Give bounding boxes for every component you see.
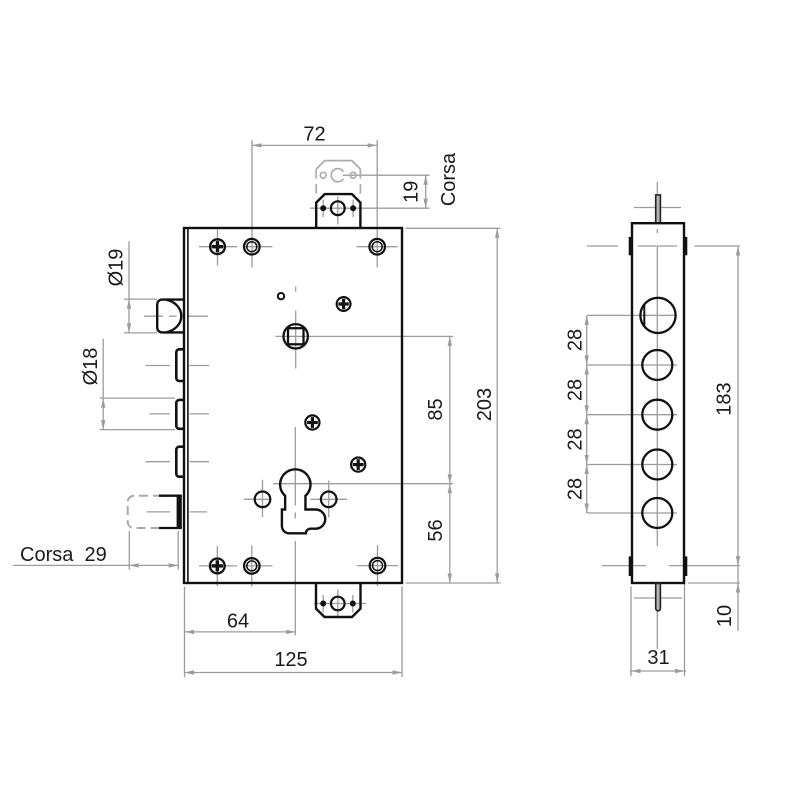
cylinder left fixing hole bbox=[255, 492, 271, 508]
bottom latch dot crosshairs bbox=[322, 595, 324, 613]
follower crosshair horizontal / dim85 ext bbox=[276, 335, 454, 337]
bottom ring crosshair vertical bbox=[251, 546, 253, 587]
dim 28 chain line bbox=[586, 315, 588, 513]
deadbolt nose curve bbox=[167, 300, 182, 332]
side hole 2 bbox=[642, 350, 672, 380]
svg-text:203: 203 bbox=[474, 388, 496, 421]
corsa29 ext left bbox=[128, 531, 130, 570]
deadbolt head (O19) bbox=[157, 300, 183, 333]
cylinder vertical centerline bbox=[294, 427, 296, 506]
dim 85 line bbox=[449, 336, 451, 483]
top latch center hole bbox=[331, 201, 345, 215]
bottom ring hole right bbox=[370, 558, 386, 574]
top right ring crosshair horizontal bbox=[357, 246, 398, 248]
bolt5 centerline bbox=[147, 511, 170, 513]
lock body outline bbox=[184, 228, 402, 583]
top latch pin bbox=[656, 195, 661, 223]
svg-text:31: 31 bbox=[647, 647, 669, 669]
dim 31 arrows bbox=[631, 669, 641, 673]
svg-text:64: 64 bbox=[227, 611, 249, 633]
dim 10 ext bbox=[688, 582, 740, 584]
dim 19 line bbox=[425, 175, 427, 208]
side hole 1 chord bbox=[643, 305, 645, 327]
O18 bolt centerline bbox=[150, 413, 171, 415]
dim O19 line bbox=[128, 241, 130, 333]
phillips screw mid left bbox=[305, 415, 319, 429]
bottom pin bbox=[656, 583, 661, 610]
svg-text:28: 28 bbox=[565, 379, 587, 401]
bracket bolt 3 (O18) bbox=[176, 400, 183, 429]
bottom latch center hole bbox=[331, 597, 345, 611]
bottom phillips screw bbox=[210, 559, 225, 574]
corsa29 ext right bbox=[177, 531, 179, 570]
phillips screw mid upper bbox=[337, 297, 351, 311]
ghost latch center arc bbox=[331, 169, 343, 182]
svg-text:19: 19 bbox=[400, 181, 422, 203]
svg-text:Ø18: Ø18 bbox=[80, 348, 102, 386]
top screw crosshair horizontal bbox=[199, 246, 237, 248]
follower crosshair vertical bbox=[295, 311, 297, 369]
svg-text:Corsa 29: Corsa 29 bbox=[20, 544, 107, 566]
bottom tabs line bbox=[602, 565, 646, 567]
dim 31 ext right bbox=[684, 558, 686, 676]
svg-text:Corsa: Corsa bbox=[438, 152, 460, 206]
svg-text:125: 125 bbox=[274, 649, 307, 671]
latch vertical centerline bbox=[337, 197, 339, 225]
bottom tab right bbox=[684, 556, 687, 576]
svg-text:Ø19: Ø19 bbox=[106, 249, 128, 287]
top pin centerline bbox=[656, 182, 658, 194]
top ring hole left bbox=[244, 239, 260, 255]
dim 203 ext top bbox=[406, 227, 501, 229]
bracket4 centerline bbox=[146, 461, 171, 463]
bottom pin level line bbox=[634, 597, 682, 599]
dim O19 ext top bbox=[124, 298, 157, 300]
dim O19 ext bottom bbox=[124, 332, 157, 334]
dim 72 left extension bbox=[251, 140, 253, 268]
dim 19 arrows bbox=[424, 175, 428, 185]
dim 125 ext right bbox=[401, 587, 403, 678]
dim 31 line bbox=[630, 670, 686, 672]
dim 10 arrows bbox=[736, 583, 740, 593]
side hole 3 bbox=[642, 400, 672, 430]
deadbolt centerline bbox=[144, 315, 163, 317]
dim O18 ext bottom bbox=[100, 429, 175, 431]
top tab right bbox=[684, 237, 687, 255]
latch dot crosshair left bbox=[322, 200, 324, 218]
corsa 29 arrows bbox=[129, 563, 139, 567]
dim 183 line bbox=[737, 246, 739, 566]
dim O18 ext top bbox=[100, 397, 175, 399]
side construction lines bbox=[587, 182, 740, 676]
dim 85 arrows bbox=[448, 336, 452, 346]
phillips screw mid right bbox=[351, 458, 365, 472]
dim 125 line bbox=[185, 672, 403, 674]
top latch right pin bbox=[350, 205, 356, 211]
cylinder left hole crosshair bbox=[244, 498, 271, 500]
dim 56 line bbox=[449, 484, 451, 583]
latch centerline horizontal bbox=[310, 207, 430, 209]
dim 183 arrows bbox=[736, 246, 740, 256]
side hole 5 bbox=[642, 498, 672, 528]
dim 64/125 ext left bbox=[184, 587, 186, 678]
faceplate inner line bbox=[187, 228, 189, 583]
bottom latch bracket bbox=[316, 583, 361, 617]
follower circle bbox=[284, 324, 308, 348]
corsa29 dim line bbox=[13, 564, 178, 566]
svg-text:85: 85 bbox=[425, 398, 447, 420]
top tab left bbox=[629, 237, 632, 255]
ghost latch right hole bbox=[350, 172, 356, 178]
dim 28 chain arrows bbox=[585, 315, 589, 325]
bracket bolt 2 bbox=[176, 349, 183, 381]
top tabs line bbox=[587, 245, 618, 247]
dim O19 arrows bbox=[127, 299, 131, 309]
extended latch level line bbox=[634, 207, 681, 209]
bottom latch right pin bbox=[350, 601, 356, 607]
bolt 5 stub top/bottom bbox=[159, 496, 182, 528]
top screw crosshair vertical bbox=[217, 228, 219, 266]
svg-text:183: 183 bbox=[714, 382, 736, 415]
cylinder crosshair horizontal / dim85-56 ext bbox=[273, 483, 453, 485]
ghost extended bolt 5 (dashed gray) bbox=[128, 496, 162, 528]
ghost latch left hole bbox=[320, 172, 326, 178]
dim 72 right extension bbox=[376, 140, 378, 268]
follower square bbox=[288, 328, 304, 344]
side plate body bbox=[632, 223, 684, 583]
dim 64 arrows bbox=[185, 630, 195, 634]
bottom latch vertical centerline bbox=[337, 590, 339, 619]
cylinder right hole crosshair bbox=[311, 498, 348, 500]
svg-text:72: 72 bbox=[303, 124, 325, 146]
bottom screw crosshair horizontal bbox=[199, 565, 237, 567]
svg-text:28: 28 bbox=[565, 428, 587, 450]
svg-text:28: 28 bbox=[565, 329, 587, 351]
bottom latch left pin bbox=[320, 601, 326, 607]
dim 72 arrows bbox=[252, 143, 262, 147]
dim O18 arrows bbox=[101, 398, 105, 408]
top latch bracket bbox=[316, 194, 360, 228]
svg-text:56: 56 bbox=[425, 519, 447, 541]
ghost latch centerline bbox=[343, 174, 430, 176]
top latch left pin bbox=[320, 205, 326, 211]
side vertical centerline bbox=[656, 229, 658, 233]
dim 72 line bbox=[252, 144, 377, 146]
svg-text:28: 28 bbox=[565, 478, 587, 500]
svg-text:10: 10 bbox=[714, 605, 736, 627]
dim 203 ext bottom bbox=[406, 582, 501, 584]
cylinder keyhole bbox=[280, 469, 325, 533]
bracket2 centerline bbox=[146, 365, 171, 367]
bottom latch crosshair horizontal bbox=[314, 603, 366, 605]
top ring hole right bbox=[369, 239, 385, 255]
cylinder right fixing hole bbox=[321, 492, 337, 508]
bottom ring hole left bbox=[244, 558, 260, 574]
bracket bolt 4 bbox=[176, 447, 183, 477]
bottom right ring crosshair bbox=[357, 565, 398, 567]
top ring crosshair horizontal bbox=[244, 246, 273, 248]
side hole 1 bbox=[640, 298, 675, 333]
dim 56 arrows bbox=[448, 484, 452, 494]
dim O18 line bbox=[102, 339, 104, 430]
dim 64 line bbox=[185, 631, 296, 633]
circle crosshairs bbox=[587, 314, 677, 316]
small hole bbox=[278, 293, 284, 299]
dim 203 arrows bbox=[495, 228, 499, 238]
bolt 5 face bar bbox=[177, 496, 182, 528]
dim 203 line bbox=[496, 228, 498, 583]
side hole 4 bbox=[642, 450, 672, 480]
latch dot crosshair right bbox=[352, 200, 354, 218]
bottom screw crosshair vertical bbox=[216, 546, 218, 586]
construction lines group bbox=[13, 140, 501, 677]
ghost latch extended (gray) bbox=[316, 161, 360, 199]
top phillips screw bbox=[210, 239, 225, 254]
dim 31 ext left bbox=[630, 587, 632, 677]
bottom tab left bbox=[629, 556, 632, 576]
dim 125 arrows bbox=[185, 670, 195, 674]
dim 10 line bbox=[737, 566, 739, 631]
